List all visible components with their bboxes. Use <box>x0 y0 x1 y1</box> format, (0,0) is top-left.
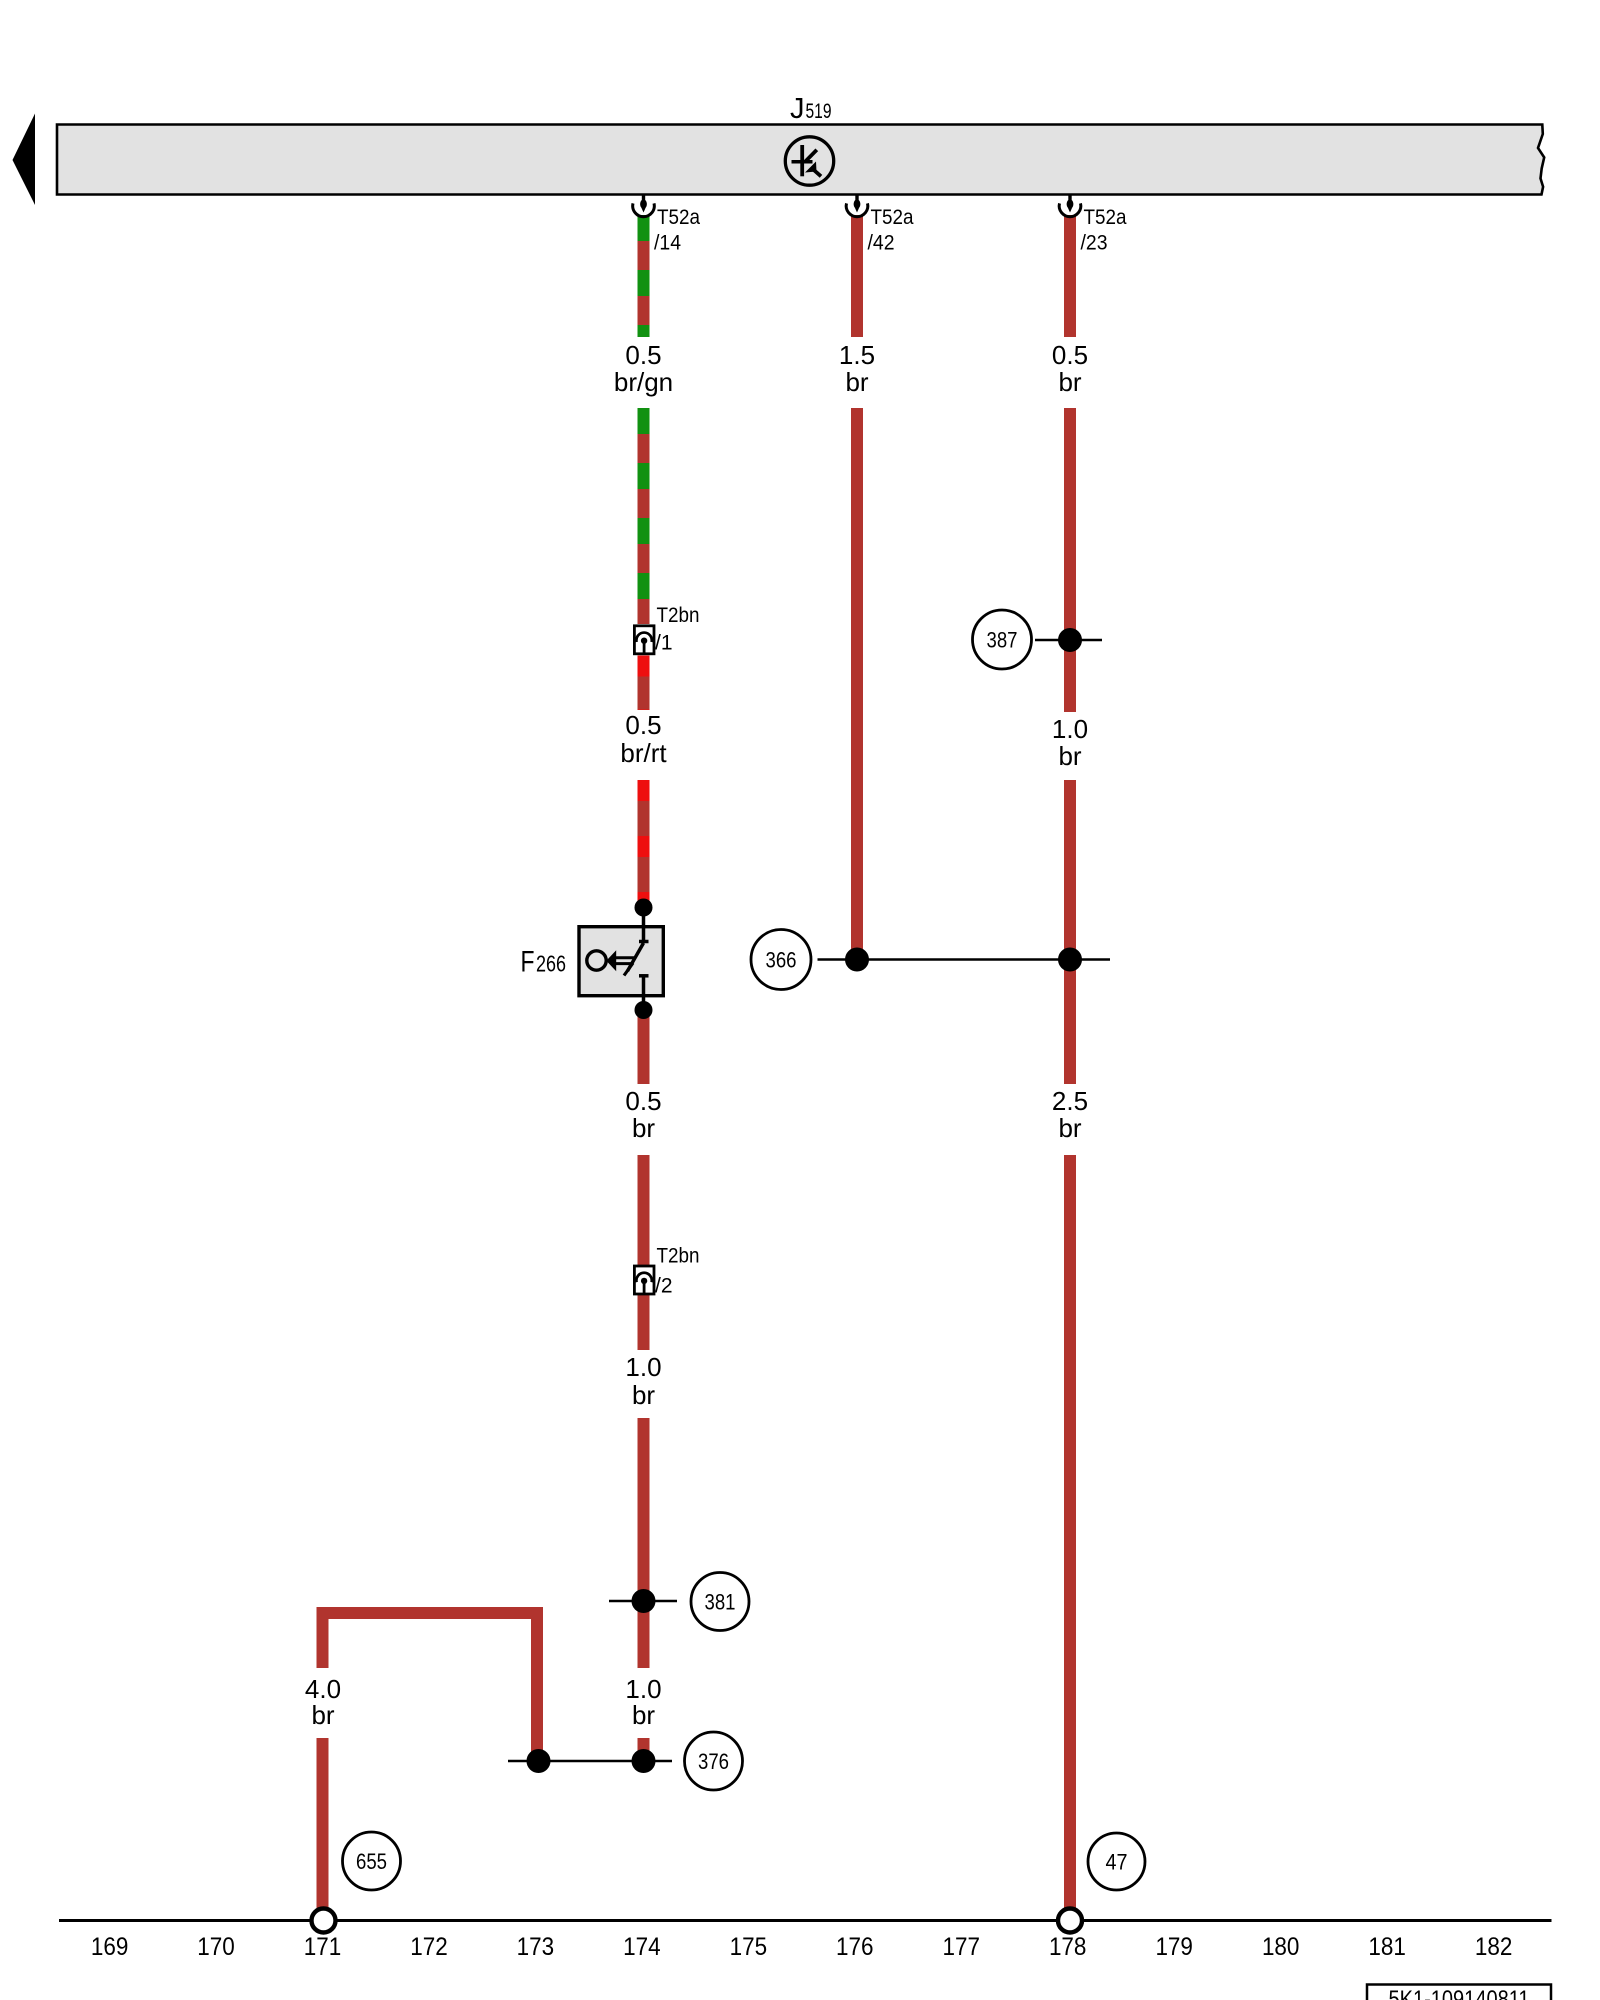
svg-text:J: J <box>790 93 805 125</box>
svg-text:519: 519 <box>806 100 832 123</box>
svg-text:/23: /23 <box>1081 232 1108 255</box>
svg-text:174: 174 <box>623 1933 661 1961</box>
svg-text:182: 182 <box>1475 1933 1513 1961</box>
svg-text:br: br <box>311 1700 334 1730</box>
svg-text:47: 47 <box>1106 1850 1128 1875</box>
svg-text:2.5: 2.5 <box>1052 1086 1088 1116</box>
svg-text:0.5: 0.5 <box>625 1086 661 1116</box>
svg-text:1.5: 1.5 <box>839 340 875 370</box>
svg-text:176: 176 <box>836 1933 874 1961</box>
svg-text:br: br <box>1058 367 1081 397</box>
svg-text:br/rt: br/rt <box>620 738 667 768</box>
svg-text:T52a: T52a <box>871 206 914 229</box>
svg-text:171: 171 <box>304 1933 342 1961</box>
svg-text:T52a: T52a <box>1084 206 1127 229</box>
svg-text:br: br <box>632 1113 655 1143</box>
svg-text:178: 178 <box>1049 1933 1087 1961</box>
svg-text:1.0: 1.0 <box>625 1352 661 1382</box>
svg-text:381: 381 <box>705 1590 736 1615</box>
svg-text:180: 180 <box>1262 1933 1300 1961</box>
svg-text:br: br <box>632 1700 655 1730</box>
svg-text:/2: /2 <box>655 1275 673 1298</box>
svg-text:br/gn: br/gn <box>614 367 673 397</box>
svg-text:173: 173 <box>517 1933 555 1961</box>
svg-text:172: 172 <box>410 1933 448 1961</box>
svg-text:181: 181 <box>1368 1933 1406 1961</box>
svg-text:T52a: T52a <box>657 206 700 229</box>
svg-text:br: br <box>845 367 868 397</box>
svg-text:/42: /42 <box>868 232 895 255</box>
svg-text:175: 175 <box>730 1933 768 1961</box>
svg-text:/14: /14 <box>654 232 681 255</box>
svg-text:/1: /1 <box>655 632 673 655</box>
svg-text:266: 266 <box>536 951 566 977</box>
svg-text:br: br <box>632 1380 655 1410</box>
svg-text:655: 655 <box>356 1849 387 1874</box>
svg-text:T2bn: T2bn <box>657 604 700 627</box>
svg-text:170: 170 <box>197 1933 235 1961</box>
svg-text:179: 179 <box>1155 1933 1193 1961</box>
svg-text:1.0: 1.0 <box>1052 714 1088 744</box>
svg-text:177: 177 <box>943 1933 981 1961</box>
svg-text:br: br <box>1058 1113 1081 1143</box>
svg-text:br: br <box>1058 741 1081 771</box>
svg-text:169: 169 <box>91 1933 129 1961</box>
svg-text:387: 387 <box>987 628 1018 653</box>
svg-text:0.5: 0.5 <box>1052 340 1088 370</box>
svg-text:376: 376 <box>698 1749 729 1774</box>
svg-text:0.5: 0.5 <box>625 340 661 370</box>
svg-text:366: 366 <box>766 948 797 973</box>
svg-text:0.5: 0.5 <box>625 710 661 740</box>
svg-text:T2bn: T2bn <box>657 1245 700 1268</box>
svg-text:5K1-109140811: 5K1-109140811 <box>1389 1986 1530 2000</box>
svg-text:F: F <box>521 946 535 979</box>
